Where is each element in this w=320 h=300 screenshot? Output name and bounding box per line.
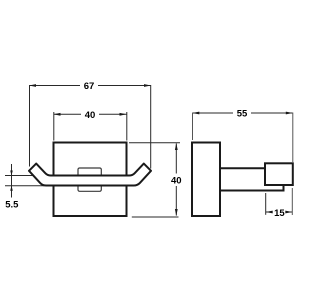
dimension 67 extension line left <box>29 85 31 167</box>
hook end block (side) <box>265 163 293 185</box>
svg-text:40: 40 <box>85 110 96 121</box>
svg-text:15: 15 <box>274 208 285 219</box>
svg-text:5.5: 5.5 <box>5 199 19 210</box>
dimension 55 extension line right <box>292 113 294 163</box>
dimension 15 line <box>266 211 272 213</box>
dimension 55 extension line left <box>192 113 194 141</box>
dimension 5.5 vertical line <box>11 164 13 198</box>
dimension 40 (side) vertical line <box>175 144 177 174</box>
dimension 67 line <box>29 85 80 87</box>
5.5 extension line top (bar top edge, extends left) <box>5 175 47 177</box>
wall plate (side) <box>192 143 220 217</box>
dimension 40 (side) extension line top (projected from front plate) <box>129 142 180 144</box>
svg-text:55: 55 <box>237 109 248 120</box>
svg-text:67: 67 <box>84 81 95 92</box>
arm end step <box>283 185 285 192</box>
dimension 40 (side) arrows <box>175 143 178 150</box>
arm bottom edge <box>220 190 284 192</box>
arm top edge <box>220 167 265 169</box>
dimension 40 (front) line <box>54 113 82 115</box>
dimension 67 extension line right <box>150 85 152 169</box>
5.5 extension line bottom (bar bottom edge, extends left) <box>5 185 44 187</box>
svg-text:40: 40 <box>171 175 182 186</box>
hook bar with upturned ends <box>29 164 151 186</box>
dimension 40 (front) arrows <box>54 113 61 116</box>
dimension 40 (side) extension line bottom (projected from front plate) <box>132 216 179 218</box>
wall plate (front) <box>54 143 127 217</box>
dimension 15 extension line left <box>265 193 267 215</box>
dimension 67 arrows <box>29 84 36 87</box>
dimension 55 line <box>192 112 233 114</box>
dimension 55 arrows <box>192 112 199 115</box>
dimension 15 extension line right <box>291 188 293 215</box>
dimension 15 arrows <box>266 211 273 214</box>
dimension 40 (front) extension line left <box>53 112 55 141</box>
dimension 40 (front) extension line right <box>126 112 128 141</box>
mounting bracket (thin rect behind bar) <box>78 168 101 191</box>
dimension 5.5 arrows <box>10 171 13 176</box>
